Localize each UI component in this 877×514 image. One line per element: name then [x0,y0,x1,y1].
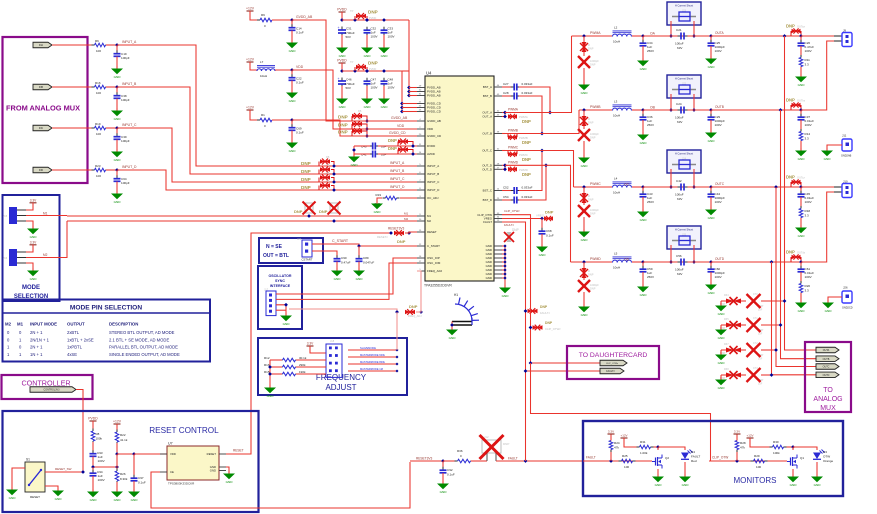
capacitor C59 1uF 250V [642,262,644,268]
wire IND to R23 [52,169,94,171]
svg-text:0.033uF: 0.033uF [522,82,533,86]
sheet box FREQUENCY ADJUST [258,338,407,395]
capacitor C34 1uF 250V [642,36,644,42]
ground under R20 [800,300,802,303]
resistor R18 3.3 [800,206,802,209]
svg-text:R37: R37 [724,343,729,346]
wire D4 to ground [684,462,686,474]
svg-text:C28: C28 [503,91,509,95]
svg-text:GND: GND [364,54,372,58]
wire OUTD to analog mux [772,262,819,375]
ground under heatsink [451,327,453,330]
svg-text:1.00k: 1.00k [640,451,648,455]
pin RESET of U7 [219,453,226,455]
svg-text:C97: C97 [138,476,144,480]
ground at R37 [720,350,722,352]
ground under R14 [800,148,802,151]
capacitor C38 100pF [116,87,118,95]
ground under C22 [291,90,293,93]
svg-text:FB: FB [358,109,362,113]
ground under snubber PWMB [583,155,585,158]
capacitor C47 1uF 100V [365,69,369,73]
junction of bead on C41 row [411,152,415,156]
capacitor C70 DNP with X [741,300,746,302]
svg-text:PVDD: PVDD [337,8,347,12]
svg-text:100V: 100V [715,123,723,127]
wire D3 to ground [816,462,818,474]
node snubber C [799,185,803,189]
svg-text:CE: CE [170,470,174,474]
svg-text:OUTB: OUTB [715,105,724,109]
ground under snubber PWMC [583,229,585,232]
svg-text:R38: R38 [724,368,729,371]
svg-text:R1: R1 [261,113,265,117]
ferrite bead DNP on PVDD [353,69,357,73]
wire OUT pins PWMD [502,164,505,166]
svg-text:100V: 100V [805,49,813,53]
svg-text:SLAVEMODE: SLAVEMODE [360,346,376,350]
ground under C60 [710,282,712,285]
svg-text:R: R [588,194,590,198]
svg-text:INPUT_A: INPUT_A [122,40,137,44]
pin OUT_C of U4 [494,150,502,152]
resistor R1 0 [257,119,260,121]
svg-text:RESET_SW: RESET_SW [55,467,72,471]
svg-text:C27: C27 [503,82,509,86]
wire PWMD filter row [571,261,613,263]
wire PVDD rail [342,70,409,72]
capacitor DNP with X snubber PWMD [583,278,585,280]
resistor R16 290k [280,366,283,368]
svg-text:1xBTL + 2xSE: 1xBTL + 2xSE [67,337,94,342]
svg-text:DNP: DNP [409,304,418,309]
svg-text:1uF: 1uF [758,309,763,312]
svg-text:GND: GND [581,164,589,168]
node PVDD C46 [340,69,344,73]
junction of bead on GVDD_AB [365,119,369,123]
svg-text:SINGLE ENDED OUTPUT, AD MODE: SINGLE ENDED OUTPUT, AD MODE [109,352,180,357]
transistor Q2 [657,447,659,450]
svg-text:PWMC: PWMC [590,182,601,186]
svg-text:GND: GND [114,158,122,162]
wire L3 to node [632,109,643,111]
svg-text:DESCRIPTION: DESCRIPTION [109,322,138,327]
wire C41 to U4 [378,153,417,155]
capacitor C25 1000pF 100V [710,36,712,42]
ground under R11 [800,74,802,77]
capacitor C37 0.01uF 100V [800,110,802,116]
resistor R20 3.3 [800,281,802,284]
svg-text:H1: H1 [454,293,458,297]
wire S1 left pins to ground [12,468,25,487]
wire CLIP_OTW to monitors [531,363,711,461]
port OUTA to analog mux [816,347,839,353]
sheet box CONTROLLER [2,375,93,399]
node OC [641,185,645,189]
svg-text:C92: C92 [447,468,453,472]
svg-text:+: + [338,77,340,81]
svg-text:R25: R25 [622,454,628,458]
svg-text:CLIP_OTWz: CLIP_OTWz [606,363,618,365]
ferrite bead DNP CLIP_OTWz [529,326,533,330]
svg-text:GND: GND [114,117,122,121]
wire L7 to VDD node [275,69,292,71]
capacitor C28 0.033uF bootstrap [502,95,512,97]
svg-text:J26: J26 [843,286,848,290]
svg-text:INPUT_D: INPUT_D [427,188,439,192]
svg-text:OTW: OTW [823,455,830,459]
svg-text:C_START: C_START [332,239,349,243]
svg-text:BST_B: BST_B [483,94,492,98]
svg-text:1000pF: 1000pF [590,283,599,287]
sheet box H Current Shunt C [667,150,701,173]
ground under C36 [642,132,644,135]
svg-text:GND: GND [364,105,372,109]
svg-text:PWMA: PWMA [508,108,519,112]
capacitor C68 0.1uF on VREG [541,219,543,231]
junction of bead on INPUT_D [332,188,336,192]
inductor L7 10uH [257,69,275,71]
ground under C31 [341,45,343,48]
wire OA to current shunt [643,35,667,37]
svg-text:GND: GND [718,386,726,390]
ground under C33 [383,45,385,48]
svg-text:IND: IND [39,169,43,172]
ferrite bead DNP snubber PWMA [583,36,585,42]
resistor R38 DNP with X [721,374,726,376]
svg-text:L5: L5 [614,252,618,256]
svg-text:CLIP_OTWz: CLIP_OTWz [545,327,561,331]
svg-text:2N + 1: 2N + 1 [30,330,43,335]
svg-text:PWMD: PWMD [508,160,519,164]
pin PVDD_AB of U4 [417,87,425,89]
ground under C38 [116,108,118,111]
svg-text:30.1k: 30.1k [299,356,307,360]
wire RESET3V3 from U7 to U4 [226,233,391,454]
svg-text:AVDD: AVDD [427,152,435,156]
svg-text:2N + 1: 2N + 1 [30,345,43,350]
svg-text:50V: 50V [346,86,351,90]
svg-text:PARALLEL BTL OUTPUT, AD MODE: PARALLEL BTL OUTPUT, AD MODE [109,345,178,350]
wire to U7 VDD [117,453,167,455]
svg-text:1xPBTL: 1xPBTL [67,345,83,350]
svg-text:DNP: DNP [590,212,596,216]
svg-text:C46: C46 [346,78,352,82]
resistor R8 100k [92,429,94,432]
ground under C19 [116,66,118,69]
junction of bead on INPUT_A [332,164,336,168]
wire R23 to node [106,169,117,171]
svg-text:GND: GND [581,91,589,95]
svg-text:DNP: DNP [338,130,348,135]
wire Q2 source to ground [657,469,659,474]
svg-text:TO DAUGHTERCARD: TO DAUGHTERCARD [579,352,648,359]
ground under C92 [442,481,444,484]
svg-text:PVDD: PVDD [337,59,347,63]
svg-text:MASTERMODE 800k: MASTERMODE 800k [360,360,386,364]
svg-text:GND: GND [283,322,291,326]
svg-text:100: 100 [624,465,629,469]
pin GND of U4 [494,253,502,255]
wire C19 to ground [116,57,118,67]
wire RESET_SW [45,471,83,473]
svg-text:+12V: +12V [620,434,627,438]
svg-text:RESET3V3: RESET3V3 [388,227,405,231]
svg-text:100V: 100V [805,123,813,127]
svg-text:GND: GND [640,293,648,297]
svg-text:GND: GND [381,105,389,109]
ground under R18 [800,225,802,228]
svg-text:GND: GND [798,234,806,238]
svg-text:RESET: RESET [30,495,40,499]
svg-text:100pF: 100pF [121,181,130,185]
svg-text:STEREO BTL OUTPUT, AD MODE: STEREO BTL OUTPUT, AD MODE [109,330,175,335]
svg-text:OUT_A: OUT_A [482,115,492,119]
svg-text:INPUT MODE: INPUT MODE [30,322,57,327]
svg-text:PVDD_CD: PVDD_CD [427,110,441,114]
wire R16 to node [106,86,117,88]
svg-text:R34: R34 [724,294,729,297]
svg-text:GND: GND [640,218,648,222]
svg-text:CSTART: CSTART [302,258,313,262]
svg-text:OB: OB [650,106,656,110]
capacitor C26 0.47uF 100V [800,36,802,42]
port INB [33,84,52,90]
svg-text:N = SE: N = SE [266,244,283,250]
sheet box H Current Shunt D [667,226,701,249]
svg-text:FREQ_ADJ: FREQ_ADJ [427,269,443,273]
svg-text:GND: GND [90,498,98,502]
svg-text:VDD: VDD [296,65,304,69]
svg-text:CONTROLLER: CONTROLLER [21,379,70,388]
svg-text:DNP: DNP [545,210,554,215]
pin OUT_D of U4 [494,164,502,166]
ground under U4 GND bus [504,285,506,288]
svg-text:GND: GND [825,309,833,313]
svg-text:R: R [588,269,590,273]
port OUTB to analog mux [816,356,839,362]
ground under C59 [642,284,644,287]
pin OSC_IOP of U4 [417,257,425,259]
pin OUT_A of U4 [494,112,502,114]
capacitor C39 100pF [116,128,118,136]
ground under C34 [642,58,644,61]
wire OC to current shunt [643,186,667,188]
junction of bead on INPUT_B [332,172,336,176]
pin INPUT_D of U4 [417,189,425,191]
svg-text:GND: GND [114,75,122,79]
svg-text:GVDD_AB: GVDD_AB [427,119,441,123]
svg-text:FAULT: FAULT [586,456,596,460]
pin PVDD_CD of U4 [417,111,425,113]
svg-text:+12V: +12V [113,420,122,424]
wire output row A [667,35,711,37]
svg-text:H Current Shunt: H Current Shunt [675,5,693,8]
wire row B to output bead [711,109,801,111]
svg-text:DNP: DNP [590,136,596,140]
svg-text:GND: GND [449,336,457,340]
pin M1 of U4 [417,215,425,217]
svg-text:3.3V: 3.3V [30,198,37,202]
svg-text:4xSE: 4xSE [67,352,77,357]
pin INPUT_A of U4 [417,165,425,167]
svg-text:DNP: DNP [338,115,348,120]
node snubber B [799,108,803,112]
svg-text:INTERFACE: INTERFACE [270,284,291,288]
svg-text:0.1uF: 0.1uF [296,31,304,35]
resistor R37 DNP with X [721,349,726,351]
ground under frequency resistors [269,385,271,388]
svg-text:DNP: DNP [294,209,303,214]
svg-text:OSC_IOP: OSC_IOP [427,256,440,260]
svg-text:GND: GND [682,483,690,487]
svg-text:0.1uF: 0.1uF [447,473,455,477]
capacitor C46 4700uF 50V [341,78,343,82]
wire J17 ground pins [276,305,286,313]
sheet box TO DAUGHTERCARD [567,346,659,379]
svg-text:10uH: 10uH [613,40,620,44]
ground at R38 [720,375,722,377]
pin GND of U4 [494,245,502,247]
svg-text:100V: 100V [371,35,378,39]
capacitor C33 1uF 100V [382,18,386,22]
pin GVDD_CD of U4 [417,135,425,137]
node INPUT_D [115,168,119,172]
wire row D to output bead [711,261,801,263]
svg-text:M2: M2 [427,219,431,223]
wire shunt C pins [670,169,672,187]
svg-text:M1: M1 [43,212,48,216]
svg-text:C31: C31 [346,27,352,31]
svg-text:DNP: DNP [301,185,311,190]
sheet box TO ANALOG MUX [805,342,851,412]
svg-text:GVDD_CD: GVDD_CD [389,131,406,135]
svg-text:FAULT: FAULT [508,457,518,461]
pin AVDD of U4 [417,153,425,155]
ferrite bead DNP on PVDD [353,18,357,22]
wire CONTROLLER to reset switch [76,390,83,473]
svg-text:M1: M1 [404,212,408,216]
svg-text:100V: 100V [715,49,723,53]
capacitor C29 1000pF 100V [710,110,712,116]
ground under C43 [642,209,644,212]
node snubber A [799,34,803,38]
capacitor C71 DNP with X [741,324,746,326]
wire C38 to ground [116,99,118,109]
svg-text:INPUT_C: INPUT_C [390,177,405,181]
svg-text:GND2CD: GND2CD [842,307,853,310]
pin GND of U7 [219,466,226,468]
svg-text:250V: 250V [647,123,654,127]
svg-text:GVDD_CD: GVDD_CD [427,134,441,138]
svg-text:OC_ADJ: OC_ADJ [427,196,439,200]
svg-text:GND: GND [30,277,38,281]
svg-text:PVDD: PVDD [369,67,376,71]
heatsink pad [452,321,472,323]
svg-text:C_START: C_START [427,244,440,248]
svg-text:47k: 47k [614,446,619,450]
pin CE of U7 [160,471,167,473]
wire C_START net [312,244,417,246]
svg-text:100: 100 [756,465,761,469]
pin BST_C of U4 [494,190,502,192]
wire row A to output bead [711,35,801,37]
op-amp U4 TPA3251D2DDVR amplifier IC [425,76,494,281]
pin INPUT_C of U4 [417,181,425,183]
svg-text:GND: GND [798,83,806,87]
svg-text:R22: R22 [120,433,126,437]
svg-text:R11: R11 [805,58,811,62]
svg-text:DNP: DNP [397,239,406,244]
ground under R26 [116,489,118,492]
svg-text:R18: R18 [805,209,811,213]
svg-text:RESET: RESET [233,449,244,453]
wire R9 to GVDD_AB node [272,19,292,21]
svg-text:+12V: +12V [746,434,753,438]
svg-text:GND: GND [267,394,275,398]
wire C39 to ground [116,140,118,150]
svg-text:INPUT_B: INPUT_B [427,172,439,176]
capacitor C32 1uF 100V [365,18,369,22]
svg-text:C54: C54 [503,195,509,199]
pin GND of U4 [494,273,502,275]
svg-text:DNP: DNP [522,172,531,177]
svg-text:GND: GND [55,497,63,501]
svg-text:DNP: DNP [545,321,553,325]
svg-text:DNP: DNP [588,273,594,277]
port CONTROL3V3 [30,387,76,393]
pin M2 of U4 [417,220,425,222]
svg-text:Red: Red [691,459,697,463]
svg-text:L2: L2 [614,26,618,30]
ground under C44 [710,207,712,210]
svg-text:DNP: DNP [512,228,519,232]
wire PWMD to output filter [505,165,571,262]
svg-text:GND: GND [581,313,589,317]
svg-text:OUTD: OUTD [823,374,830,377]
wire INPUT_D routing to U4 [117,170,417,190]
wire C71 to mux line [761,324,781,326]
svg-text:DNP: DNP [522,140,531,145]
svg-text:OUTD: OUTD [715,257,725,261]
capacitor C93 1uF 100V [92,450,94,454]
svg-text:GND: GND [226,480,234,484]
wire INPUT_B routing to U4 [117,87,417,174]
svg-text:FAULTz: FAULTz [504,223,514,227]
wire FAULT net to monitors via daughtercard [502,222,526,461]
resistor R9 0 [257,19,260,21]
wire CE to bottom rail [151,462,410,508]
svg-text:GND: GND [289,99,297,103]
svg-text:C42: C42 [676,179,682,183]
wire VDD to U4 [292,70,417,129]
svg-text:100V: 100V [805,200,813,204]
svg-text:OUTB: OUTB [823,358,830,361]
wire OUTC to analog mux [776,187,818,367]
svg-text:GND: GND [581,238,589,242]
wire PWMB to output filter [505,110,579,134]
svg-text:MODE PIN SELECTION: MODE PIN SELECTION [70,305,142,312]
svg-text:MUX: MUX [820,405,836,412]
svg-text:100pF: 100pF [121,56,130,60]
wire shunt D pins [670,245,672,262]
svg-text:DNP: DNP [588,121,594,125]
svg-text:DNP: DNP [301,161,311,166]
svg-text:J16: J16 [3,256,8,260]
pin OUT_A of U4 [494,116,502,118]
svg-text:S1: S1 [26,458,30,462]
svg-text:3.3V: 3.3V [30,240,37,244]
